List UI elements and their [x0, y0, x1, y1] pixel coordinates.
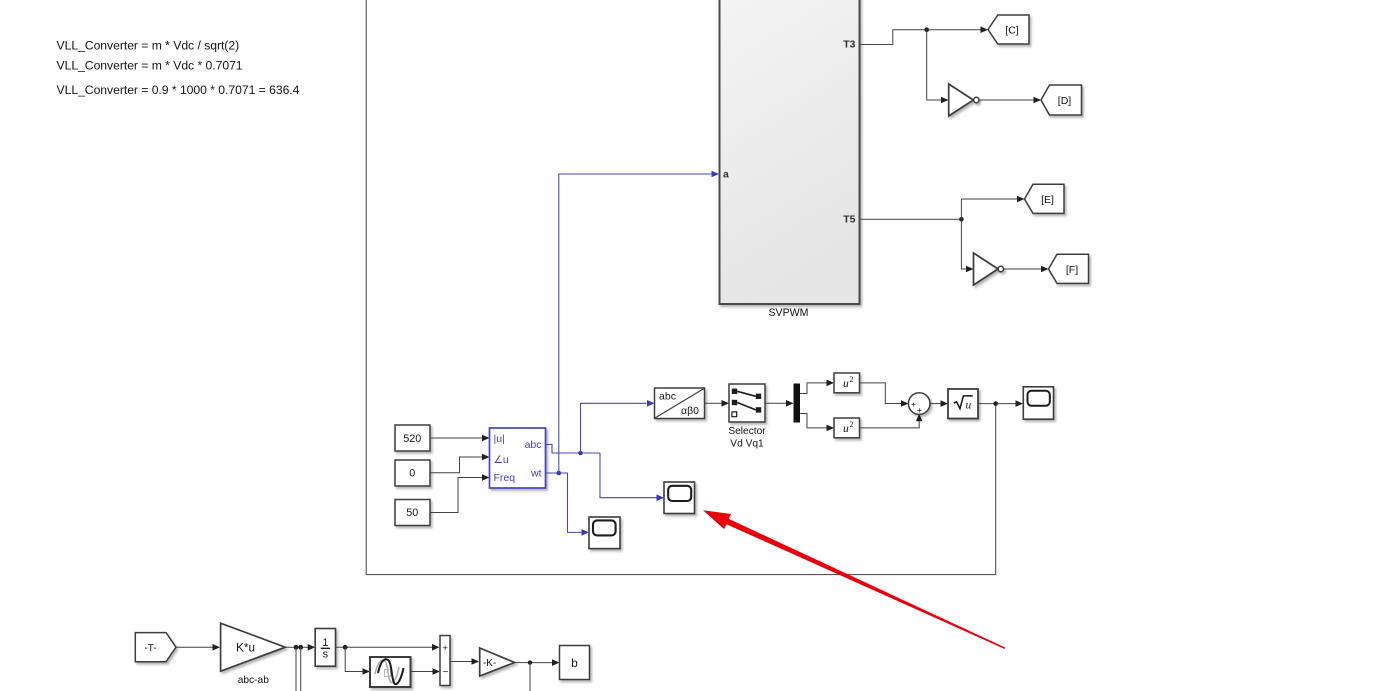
port label T3: [843, 39, 855, 51]
wire junction down to NOT gate 2: [961, 219, 973, 272]
transform block abc to alpha-beta-0: [655, 388, 705, 419]
goto block b: [560, 646, 590, 680]
svg-text:αβ0: αβ0: [681, 405, 699, 417]
gain -K-: [480, 648, 515, 676]
sum rectangle block: [440, 636, 450, 686]
trigonometric sine block: [370, 657, 411, 687]
svg-text:-K-: -K-: [483, 658, 496, 669]
wire branch down from junction 2: [300, 647, 302, 691]
svg-text:0: 0: [409, 468, 415, 480]
gain K*u: [221, 623, 286, 671]
svg-text:u: u: [843, 378, 849, 390]
wire junction up to goto E: [961, 196, 1024, 220]
svg-text:abc: abc: [525, 439, 542, 451]
svg-text:Selector: Selector: [728, 426, 766, 437]
junction on abc wire: [578, 451, 583, 456]
svg-text:VLL_Converter = m * Vdc / sqrt: VLL_Converter = m * Vdc / sqrt(2): [57, 39, 240, 53]
constant 0: [395, 460, 430, 486]
wire 50 to Freq input: [431, 474, 490, 512]
svg-text:a: a: [723, 169, 729, 181]
svg-text:[D]: [D]: [1058, 95, 1072, 107]
svg-text:Freq: Freq: [494, 472, 516, 484]
wire abc branch down to scope1: [600, 453, 664, 501]
wire demux to u2 top: [800, 380, 834, 394]
wire integrator to sum plus: [336, 644, 440, 651]
wire selector to demux: [765, 400, 794, 407]
svg-text:50: 50: [406, 507, 418, 519]
wire wt output through junction: [546, 473, 589, 536]
svg-text:SVPWM: SVPWM: [768, 307, 808, 319]
goto [E]: [1025, 184, 1065, 213]
wire branch down from -K- junction: [529, 663, 531, 691]
scope2: [589, 517, 620, 549]
svg-text:[C]: [C]: [1005, 25, 1019, 37]
svg-text:520: 520: [403, 433, 421, 445]
goto [C]: [988, 15, 1029, 44]
subsystem SVPWM: [720, 0, 860, 304]
junction pair on gain output: [294, 645, 304, 650]
svg-text:Vd Vq1: Vd Vq1: [730, 438, 764, 449]
svg-text:+: +: [917, 405, 922, 415]
svg-text:VLL_Converter = m * Vdc * 0.70: VLL_Converter = m * Vdc * 0.7071: [57, 59, 243, 73]
svg-text:2: 2: [850, 420, 854, 429]
annotation text line 3: [57, 83, 300, 97]
constant 50: [395, 500, 430, 526]
wire -T- to gain abc-ab: [176, 644, 220, 651]
svg-text:+: +: [911, 399, 916, 409]
svg-text:T3: T3: [843, 39, 855, 51]
wire -K- to goto b: [515, 659, 560, 666]
svg-text:|u|: |u|: [494, 433, 505, 445]
junction on sqrt output: [993, 401, 998, 406]
svg-text:1: 1: [322, 637, 328, 649]
wire NOT1 to goto D: [979, 97, 1041, 104]
svg-text:[F]: [F]: [1066, 264, 1078, 276]
wire sine to sum minus: [411, 668, 441, 675]
svg-text:wt: wt: [530, 468, 542, 480]
port label T5: [843, 214, 855, 226]
math block u^2 top: [834, 373, 860, 393]
logic NOT gate 2: [974, 253, 1004, 285]
wire sum to sqrt: [929, 400, 948, 407]
wire feedback loop from sqrt output junction down-left-up offscreen: [366, 0, 996, 575]
annotation text line 1: [57, 39, 240, 53]
wire NOT2 to goto F: [1004, 266, 1049, 273]
wire branch down from junction 1: [295, 647, 297, 691]
svg-text:VLL_Converter = 0.9 * 1000 * 0: VLL_Converter = 0.9 * 1000 * 0.7071 = 63…: [57, 83, 300, 97]
junction after -K-: [528, 660, 532, 664]
wire u2 bottom to sum: [860, 414, 923, 428]
wire gain to integrator with double junction: [285, 644, 315, 651]
label SVPWM: [768, 307, 808, 319]
label Selector Vd Vq1: [728, 426, 766, 450]
math block u^2 bottom: [834, 418, 860, 438]
wire junction down to sine block: [345, 647, 370, 675]
sum block circle: [908, 393, 930, 415]
integrator 1/s: [315, 629, 335, 667]
wire junction down to NOT gate 1: [927, 30, 949, 104]
junction on integrator output: [343, 645, 348, 650]
wire 0 to angle input: [431, 454, 490, 473]
sqrt block: [948, 389, 978, 419]
from block -T-: [135, 633, 176, 662]
wire T3 to goto C: [861, 26, 989, 44]
constant 520: [395, 425, 430, 451]
svg-text:u: u: [843, 423, 849, 435]
wire sqrt to scope3: [978, 400, 1023, 407]
junction on T5 wire: [959, 217, 964, 222]
wire demux to u2 bottom: [800, 414, 834, 432]
selector block: [729, 384, 765, 422]
svg-text:T5: T5: [843, 214, 855, 226]
svg-text:u: u: [966, 399, 972, 411]
wire sum to gain -K-: [450, 658, 479, 665]
wire u2 top to sum: [860, 383, 909, 407]
logic NOT gate 1: [949, 84, 979, 116]
annotation text line 2: [57, 59, 243, 73]
svg-text:2: 2: [850, 375, 854, 384]
wire wt junction up to SVPWM input a: [559, 171, 719, 473]
goto [F]: [1049, 254, 1089, 283]
wire junction up to abc-alphabeta block: [581, 400, 655, 453]
wire alphabeta to selector: [705, 400, 729, 407]
svg-text:∠u: ∠u: [494, 454, 509, 466]
svg-text:b: b: [571, 656, 578, 670]
wire T5 to junction: [861, 218, 962, 220]
annotation red arrow: [703, 510, 1005, 649]
svg-text:abc-ab: abc-ab: [238, 675, 269, 686]
scope3: [1023, 387, 1053, 419]
svg-text:−: −: [443, 667, 449, 678]
svg-text:+: +: [442, 643, 448, 654]
port label a: [723, 169, 729, 181]
demux bar: [794, 384, 801, 423]
junction on T3 wire: [924, 27, 929, 32]
svg-text:s: s: [323, 649, 329, 661]
svg-text:-T-: -T-: [145, 643, 157, 654]
source block three-phase programmable generator (selected, blue): [490, 428, 546, 488]
scope1: [664, 482, 695, 514]
label abc-ab: [238, 675, 269, 686]
wire abc output to junction: [546, 445, 600, 454]
svg-text:[E]: [E]: [1041, 194, 1054, 206]
svg-text:K*u: K*u: [236, 641, 255, 655]
wire 520 to |u| input: [431, 435, 490, 442]
junction on wt wire: [557, 471, 562, 476]
svg-text:abc: abc: [659, 391, 676, 403]
goto [D]: [1041, 85, 1082, 115]
